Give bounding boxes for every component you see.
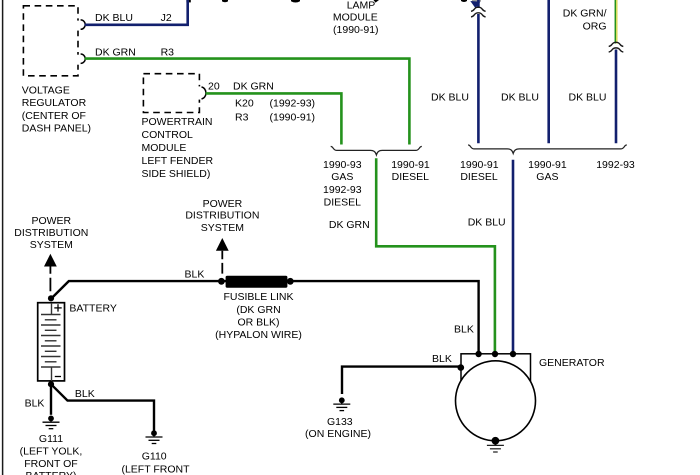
powertrain control module label bbox=[142, 116, 214, 180]
svg-text:POWER: POWER bbox=[31, 215, 71, 227]
svg-text:1990-91: 1990-91 bbox=[528, 159, 567, 171]
svg-text:DASH PANEL): DASH PANEL) bbox=[22, 123, 91, 135]
svg-text:G111: G111 bbox=[39, 433, 63, 445]
wire DK GRN (brace A to generator) bbox=[376, 158, 495, 353]
connector pin (voltage regulator, DK BLU) bbox=[81, 20, 86, 29]
cropped title fragment 2 bbox=[291, 0, 300, 3]
ground G111 label bbox=[20, 433, 83, 475]
svg-text:GENERATOR: GENERATOR bbox=[539, 357, 605, 369]
svg-text:1992-93: 1992-93 bbox=[596, 159, 635, 171]
svg-text:FRONT OF: FRONT OF bbox=[24, 458, 77, 470]
brace B (1990-91 diesel / 1990-91 gas / 1992-93) bbox=[468, 145, 627, 154]
svg-text:DK BLU: DK BLU bbox=[431, 92, 469, 104]
cropped title fragment 6 (tick after LAMP) bbox=[374, 0, 380, 3]
svg-text:(LEFT YOLK,: (LEFT YOLK, bbox=[20, 446, 83, 458]
wire BLK (G133 to generator) bbox=[342, 367, 459, 394]
wire break symbol (1992-93 wire) bbox=[609, 42, 624, 52]
wire DK GRN (PCM pin 20 to brace) bbox=[206, 93, 342, 144]
label 1990-91 GAS (brace B) bbox=[528, 159, 567, 183]
svg-text:(LEFT FRONT: (LEFT FRONT bbox=[121, 464, 190, 475]
svg-text:BLK: BLK bbox=[75, 388, 95, 400]
wire break symbol (diesel wire) bbox=[471, 7, 486, 17]
svg-text:GAS: GAS bbox=[331, 171, 353, 183]
svg-text:(1990-91): (1990-91) bbox=[270, 111, 316, 123]
wire R3 DK GRN (voltage regulator to brace) bbox=[85, 59, 410, 145]
svg-text:20: 20 bbox=[208, 80, 220, 92]
battery - terminal mark bbox=[55, 376, 61, 378]
junction (dashed arrow / wire, left of fusible link) bbox=[218, 278, 225, 285]
wire DK BLU 1990-91 diesel (top, with off-page arrow) bbox=[477, 0, 480, 143]
page border (left edge) bbox=[2, 0, 4, 475]
wire BLK (battery to fusible link to generator) bbox=[51, 281, 478, 353]
svg-text:MODULE: MODULE bbox=[142, 142, 187, 154]
junction (right of fusible link) bbox=[287, 278, 294, 285]
voltage regulator (dashed box) bbox=[23, 6, 78, 76]
svg-text:1990-91: 1990-91 bbox=[460, 159, 499, 171]
svg-text:R3: R3 bbox=[235, 111, 249, 123]
svg-text:LEFT FENDER: LEFT FENDER bbox=[142, 155, 214, 167]
svg-text:BATTERY: BATTERY bbox=[69, 302, 116, 314]
svg-text:GAS: GAS bbox=[536, 171, 558, 183]
svg-text:(DK GRN: (DK GRN bbox=[236, 304, 280, 316]
junction (battery positive post) bbox=[48, 295, 54, 301]
wire DK BLU (brace B to generator) bbox=[512, 160, 515, 353]
svg-text:OR BLK): OR BLK) bbox=[237, 316, 279, 328]
connector pin 20 (PCM) bbox=[202, 87, 206, 99]
generator terminal box bbox=[461, 354, 531, 381]
connector pin (voltage regulator, DK GRN) bbox=[81, 54, 86, 63]
svg-text:BLK: BLK bbox=[454, 324, 474, 336]
wire BLK (battery to G110) bbox=[51, 384, 154, 430]
battery + terminal mark bbox=[54, 304, 61, 311]
svg-text:(HYPALON WIRE): (HYPALON WIRE) bbox=[215, 329, 302, 341]
off-page arrow to power distribution (left) bbox=[44, 254, 57, 291]
off-page arrow to power distribution (center) bbox=[216, 238, 229, 274]
cropped title fragment 4 (gray, above arrow) bbox=[472, 0, 481, 2]
wire DK BLU 1992-93 (below break) bbox=[615, 50, 618, 144]
svg-text:DK GRN: DK GRN bbox=[95, 46, 136, 58]
svg-text:DK BLU: DK BLU bbox=[468, 217, 506, 229]
svg-text:DIESEL: DIESEL bbox=[324, 196, 362, 208]
svg-text:(CENTER OF: (CENTER OF bbox=[22, 110, 86, 122]
label 1990-91 DIESEL (brace A right) bbox=[391, 159, 430, 183]
wire DK BLU 1990-91 gas bbox=[547, 0, 550, 143]
svg-text:BLK: BLK bbox=[25, 397, 45, 409]
svg-text:DISTRIBUTION: DISTRIBUTION bbox=[14, 227, 88, 239]
power distribution system label (center) bbox=[185, 198, 259, 234]
svg-text:1990-93: 1990-93 bbox=[323, 159, 362, 171]
fusible link bbox=[226, 276, 288, 288]
svg-text:CONTROL: CONTROL bbox=[142, 129, 193, 141]
ground G110 bbox=[146, 430, 163, 443]
svg-text:SIDE SHIELD): SIDE SHIELD) bbox=[142, 168, 211, 180]
svg-text:(ON ENGINE): (ON ENGINE) bbox=[305, 428, 371, 440]
svg-text:G110: G110 bbox=[142, 450, 167, 462]
svg-text:DK BLU: DK BLU bbox=[501, 92, 539, 104]
lamp module label bbox=[333, 0, 379, 36]
label DK GRN/ ORG bbox=[563, 8, 607, 33]
gap in box edge at pin 20 (white patch) bbox=[198, 86, 201, 99]
svg-text:1990-91: 1990-91 bbox=[391, 159, 430, 171]
svg-text:DK GRN/: DK GRN/ bbox=[563, 8, 607, 20]
label 1990-91 DIESEL (brace B) bbox=[460, 159, 499, 183]
svg-text:DK GRN: DK GRN bbox=[329, 219, 370, 231]
fusible link label bbox=[215, 291, 302, 341]
ground G110 label bbox=[121, 450, 190, 475]
svg-text:K20: K20 bbox=[235, 98, 254, 110]
battery bbox=[38, 303, 65, 381]
off-page arrow (diesel wire) bbox=[470, 1, 480, 8]
brace A (1990-93 gas / 1992-93 diesel and 1990-91 diesel) bbox=[331, 146, 422, 155]
svg-text:BLK: BLK bbox=[432, 353, 452, 365]
svg-text:MODULE: MODULE bbox=[333, 11, 378, 23]
wire DK GRN/ORG 1992-93 (green/orange top section) bbox=[615, 0, 617, 44]
svg-text:DK GRN: DK GRN bbox=[233, 80, 274, 92]
svg-text:(1990-91): (1990-91) bbox=[333, 24, 379, 36]
wire J2 DK BLU (voltage regulator to top edge) bbox=[85, 0, 188, 25]
generator terminal junction (BLK) bbox=[475, 351, 481, 357]
svg-text:DIESEL: DIESEL bbox=[460, 171, 498, 183]
svg-text:1992-93: 1992-93 bbox=[323, 184, 362, 196]
svg-text:DIESEL: DIESEL bbox=[392, 171, 430, 183]
powertrain control module (dashed box) bbox=[143, 74, 199, 113]
svg-text:VOLTAGE: VOLTAGE bbox=[22, 85, 70, 97]
generator terminal junction (DK GRN) bbox=[492, 351, 498, 357]
generator terminal junction (DK BLU) bbox=[510, 351, 516, 357]
cropped title fragment 5 (atop J2 wire) bbox=[186, 0, 190, 2]
ground G133 label bbox=[305, 416, 371, 440]
cropped title fragment 1 bbox=[222, 0, 228, 2]
junction (battery negative post) bbox=[48, 381, 54, 387]
ground G133 bbox=[333, 397, 350, 410]
svg-text:R3: R3 bbox=[161, 46, 175, 58]
svg-text:FUSIBLE LINK: FUSIBLE LINK bbox=[223, 291, 293, 303]
wire BLK (battery to G111) bbox=[50, 384, 52, 415]
svg-text:POWERTRAIN: POWERTRAIN bbox=[142, 116, 213, 128]
gap in box edge at pins (white patches) bbox=[77, 21, 80, 31]
label 1990-93 GAS 1992-93 DIESEL bbox=[323, 159, 362, 208]
svg-text:DISTRIBUTION: DISTRIBUTION bbox=[185, 210, 259, 222]
svg-text:(1992-93): (1992-93) bbox=[270, 98, 316, 110]
svg-text:DK BLU: DK BLU bbox=[95, 12, 133, 24]
svg-text:ORG: ORG bbox=[583, 21, 607, 33]
svg-text:BATTERY): BATTERY) bbox=[26, 470, 77, 475]
voltage regulator label bbox=[22, 85, 91, 135]
svg-text:REGULATOR: REGULATOR bbox=[22, 97, 87, 109]
svg-text:LAMP: LAMP bbox=[347, 0, 376, 12]
generator body (circle) bbox=[456, 361, 536, 441]
generator case ground junction bbox=[492, 437, 500, 445]
power distribution system label (left) bbox=[14, 215, 88, 251]
svg-text:SYSTEM: SYSTEM bbox=[30, 239, 73, 251]
cropped title fragment 3 bbox=[461, 0, 467, 2]
generator case ground bbox=[487, 441, 504, 452]
generator case junction (G133 wire) bbox=[458, 364, 465, 371]
svg-text:BLK: BLK bbox=[185, 269, 205, 281]
svg-text:DK BLU: DK BLU bbox=[569, 92, 607, 104]
ground G111 bbox=[43, 416, 60, 429]
svg-text:G133: G133 bbox=[327, 416, 353, 428]
svg-text:SYSTEM: SYSTEM bbox=[201, 222, 244, 234]
svg-text:POWER: POWER bbox=[203, 198, 243, 210]
svg-text:J2: J2 bbox=[161, 12, 172, 24]
